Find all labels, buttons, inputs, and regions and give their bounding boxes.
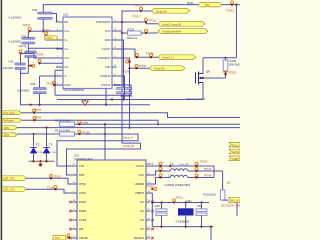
- resistor R125: [222, 171, 224, 190]
- net label minibox: [45, 36, 58, 40]
- wire T1OUT to Serial1_Tx: [117, 49, 159, 57]
- wire VCCIO row: [152, 165, 214, 167]
- svg-text:(FT232RQ,QFN): (FT232RQ,QFN): [74, 158, 93, 161]
- svg-text:TXD: TXD: [79, 164, 84, 168]
- wire GND pin to cap: [117, 40, 124, 87]
- svg-text:0.1uF,0603: 0.1uF,0603: [17, 89, 30, 92]
- svg-text:C2-: C2-: [65, 65, 69, 69]
- svg-text:TP76: TP76: [147, 162, 154, 166]
- svg-text:TP145: TP145: [204, 167, 212, 171]
- test point TP94: [33, 117, 36, 120]
- svg-text:INVALID: INVALID: [100, 74, 110, 78]
- svg-text:DKS: DKS: [4, 127, 9, 130]
- wire VCC row up to Serial_Rx: [117, 11, 152, 31]
- wire TP133 to V+: [46, 36, 63, 40]
- svg-text:0.1uF,0603: 0.1uF,0603: [120, 95, 133, 98]
- svg-text:CTS#: CTS#: [79, 191, 86, 195]
- wire V- row: [40, 75, 64, 77]
- test point TP229: [224, 71, 227, 74]
- svg-text:T1OUT: T1OUT: [102, 47, 111, 51]
- wire top rail: [43, 5, 198, 12]
- svg-text:U32: U32: [63, 13, 69, 17]
- sheet border: [1, 0, 3, 240]
- wire row4: [17, 134, 138, 166]
- svg-text:TP234: TP234: [139, 64, 147, 68]
- port BU_Mode: [229, 198, 241, 203]
- wire C34 leads: [27, 31, 29, 38]
- svg-text:C1+: C1+: [65, 29, 70, 33]
- wire C30 bottom lead: [42, 19, 44, 31]
- wire C30 top plate to EN pin: [53, 14, 64, 23]
- wire vertical from top rail to Q8 block: [235, 5, 237, 58]
- wire vertical bus from FORCEOFF to lower rail: [121, 22, 123, 143]
- svg-text:(T1,B06: (T1,B06: [50, 152, 58, 154]
- svg-text:5VCo: 5VCo: [232, 144, 239, 147]
- svg-text:TxPwr: TxPwr: [46, 37, 53, 40]
- svg-text:C31: C31: [9, 60, 15, 64]
- svg-text:C1-: C1-: [65, 47, 69, 51]
- ground earth symbol: [39, 163, 42, 166]
- op-amp U32 (RS-232 transceiver MAX3233E): [63, 17, 112, 89]
- IC U31 FT232RQ: [77, 160, 146, 240]
- svg-text:TP233: TP233: [132, 14, 140, 18]
- svg-text:USBDM: USBDM: [134, 182, 144, 186]
- wire C2- row: [40, 62, 64, 64]
- wire R1IN row: [53, 84, 63, 86]
- resistor R130: [225, 58, 227, 60]
- wire cap bottom rail: [152, 226, 213, 228]
- wire USBDP drop: [151, 193, 153, 227]
- wire cap top rail: [152, 202, 209, 204]
- port 5VComs: [229, 142, 240, 147]
- svg-text:FORCEON: FORCEON: [97, 56, 110, 60]
- svg-text:Serial1_ForceOff: Serial1_ForceOff: [162, 23, 181, 26]
- svg-text:FORCEOFF: FORCEOFF: [96, 20, 111, 24]
- svg-text:DKS: DKS: [4, 134, 9, 137]
- svg-text:R125,0603: R125,0603: [204, 193, 217, 196]
- svg-text:V-: V-: [65, 74, 68, 78]
- svg-text:RI#: RI#: [79, 227, 84, 231]
- svg-text:NC: NC: [140, 218, 144, 222]
- svg-text:Serial_Rx: Serial_Rx: [154, 68, 166, 71]
- svg-text:TP96: TP96: [82, 121, 89, 125]
- wire row2b: [60, 123, 241, 125]
- wire drain: [202, 58, 204, 74]
- wire C36 leads: [39, 76, 41, 87]
- test point TP148: [154, 188, 157, 191]
- svg-text:VCC: VCC: [105, 29, 111, 33]
- svg-text:TP148: TP148: [146, 184, 154, 188]
- svg-text:NC: NC: [140, 227, 144, 231]
- svg-text:TP100: TP100: [200, 159, 208, 163]
- svg-text:MAX3233EB(A06): MAX3233EB(A06): [64, 89, 85, 92]
- svg-text:4.7uF(0805): 4.7uF(0805): [176, 220, 190, 223]
- svg-text:TP230: TP230: [226, 8, 234, 12]
- test point TP on top rail: [231, 1, 234, 4]
- svg-text:CSR_RTS: CSR_RTS: [3, 178, 15, 181]
- wire TP140 to C2+: [21, 54, 64, 59]
- svg-text:IGN_Input: IGN_Input: [3, 112, 15, 115]
- svg-text:RESET#: RESET#: [134, 236, 145, 240]
- svg-text:T1IN: T1IN: [105, 65, 111, 69]
- wire ground rail A: [57, 99, 203, 101]
- svg-text:USBP: USBP: [232, 158, 239, 161]
- svg-text:V+: V+: [65, 38, 69, 42]
- test point on C32 lead: [38, 60, 41, 63]
- test point TP175: [54, 186, 57, 189]
- wire CTS: [26, 189, 72, 193]
- svg-text:TP146: TP146: [204, 174, 212, 178]
- svg-text:T2: T2: [49, 143, 53, 147]
- port Serial1_ForceOff: [158, 21, 205, 26]
- svg-text:CSR_CTS: CSR_CTS: [3, 189, 15, 192]
- test point TP147: [50, 175, 53, 178]
- svg-text:TP140: TP140: [36, 53, 44, 57]
- svg-text:SerialCommsPwr: SerialCommsPwr: [162, 31, 181, 34]
- svg-text:C91: C91: [187, 199, 193, 203]
- svg-text:TP133: TP133: [42, 28, 50, 32]
- svg-text:2K2: 2K2: [205, 4, 210, 7]
- svg-text:DTR#: DTR#: [79, 200, 86, 204]
- svg-text:EN: EN: [65, 20, 69, 24]
- port DKS: [2, 126, 17, 130]
- port ExtPower: [2, 118, 21, 122]
- port IGN_Input: [2, 111, 21, 115]
- wire Q8 top rail: [203, 57, 236, 59]
- svg-text:TP175: TP175: [47, 185, 55, 189]
- svg-text:Serial_Rx: Serial_Rx: [156, 11, 168, 14]
- svg-text:R1IN: R1IN: [65, 83, 71, 87]
- svg-text:1uF,Tg: 1uF,Tg: [19, 45, 27, 48]
- wire source down to rail: [202, 83, 204, 100]
- svg-text:ExtPower: ExtPower: [3, 120, 14, 123]
- svg-text:RTS#: RTS#: [79, 182, 86, 186]
- svg-text:TP136: TP136: [122, 70, 130, 74]
- wire GND drop: [105, 89, 107, 105]
- wire diode bottoms: [33, 153, 35, 161]
- wire R1OUT row down: [117, 85, 132, 95]
- svg-text:C90: C90: [155, 204, 161, 208]
- svg-text:100K,0603: 100K,0603: [229, 64, 241, 67]
- svg-text:R130: R130: [230, 59, 237, 63]
- port CSR_RTS: [2, 176, 26, 181]
- ground: [84, 100, 86, 101]
- wire INVALID row down: [117, 76, 125, 100]
- svg-text:GND: GND: [105, 38, 111, 42]
- wire row3: [17, 127, 240, 129]
- wire R131 to edge: [221, 4, 240, 6]
- svg-text:USBDP: USBDP: [135, 191, 144, 195]
- port Serial1_Tx: [158, 55, 196, 60]
- svg-text:SerPw: SerPw: [232, 151, 240, 154]
- wire right loop: [213, 166, 215, 178]
- svg-text:DCD#: DCD#: [79, 218, 87, 222]
- svg-text:U31: U31: [74, 154, 80, 158]
- svg-text:VCC: VCC: [138, 173, 144, 177]
- svg-text:TP229: TP229: [229, 71, 237, 75]
- svg-text:L6: L6: [171, 162, 175, 166]
- wire T1IN row to Serial_Rx port: [130, 67, 150, 69]
- resistor R132: [121, 32, 123, 34]
- port SerialCommsPwr: [158, 29, 208, 34]
- wire FORCEOFF row: [117, 22, 159, 24]
- svg-text:TP147: TP147: [54, 175, 62, 179]
- svg-text:C2+: C2+: [65, 56, 70, 60]
- wire C31 leads: [20, 54, 22, 64]
- port DKS2: [2, 133, 17, 137]
- port CSR_CTS: [2, 187, 26, 192]
- test point TP75: [33, 109, 36, 112]
- svg-text:TP121: TP121: [176, 196, 184, 200]
- wire ground rail B: [20, 104, 150, 106]
- svg-text:Q8: Q8: [206, 69, 210, 73]
- no-connect X marks left: [69, 201, 71, 239]
- wire row1: [22, 113, 241, 118]
- svg-text:R131: R131: [187, 1, 194, 5]
- svg-text:RXD: RXD: [79, 173, 85, 177]
- svg-text:TP94: TP94: [35, 115, 42, 119]
- wire row2: [22, 120, 159, 124]
- svg-text:VCCIO: VCCIO: [136, 164, 144, 168]
- port Serial_Rx: [152, 8, 191, 13]
- svg-text:C30: C30: [32, 8, 38, 12]
- svg-text:BU_M: BU_M: [232, 200, 239, 203]
- svg-text:47uH,0805: 47uH,0805: [179, 164, 190, 166]
- wire GND row down: [117, 58, 130, 128]
- svg-text:Serial1_Tx: Serial1_Tx: [162, 57, 175, 60]
- svg-text:DSR#: DSR#: [79, 209, 87, 213]
- svg-text:T3: T3: [36, 143, 40, 147]
- svg-text:C36: C36: [30, 82, 36, 86]
- wire U31 power feed: [104, 124, 106, 160]
- wire rx loop: [67, 143, 141, 175]
- no-connect X marks right: [151, 201, 153, 239]
- svg-text:TP212: TP212: [149, 18, 157, 22]
- svg-text:TP128: TP128: [82, 131, 90, 135]
- svg-text:0.1uF,0603: 0.1uF,0603: [1, 67, 14, 70]
- port Serial_Rx lower: [150, 66, 186, 71]
- wire C32 leads: [27, 48, 29, 52]
- svg-text:TP75: TP75: [35, 108, 42, 112]
- svg-text:(1): (1): [227, 180, 230, 184]
- svg-text:R1OUT: R1OUT: [102, 83, 111, 87]
- svg-text:NC: NC: [140, 200, 144, 204]
- svg-text:0.1uF,0603: 0.1uF,0603: [9, 16, 22, 19]
- svg-text:R132: R132: [128, 27, 135, 31]
- svg-text:TP134: TP134: [23, 23, 31, 27]
- svg-text:NC: NC: [140, 209, 144, 213]
- svg-text:10K(omit): 10K(omit): [127, 37, 138, 40]
- wire gate rail: [203, 77, 226, 79]
- svg-text:C-MODE CHOKE,0805: C-MODE CHOKE,0805: [164, 184, 191, 187]
- test point bottom left: [53, 236, 66, 240]
- svg-text:0.1uF,0603: 0.1uF,0603: [9, 41, 22, 44]
- svg-text:CBUS0: CBUS0: [79, 236, 88, 240]
- wire RTS: [26, 178, 72, 184]
- wire to C1+: [30, 30, 63, 32]
- wire rail 95: [55, 94, 131, 96]
- svg-text:Serial_Tx: Serial_Tx: [123, 136, 135, 140]
- svg-text:Serial_Rx: Serial_Rx: [123, 144, 135, 148]
